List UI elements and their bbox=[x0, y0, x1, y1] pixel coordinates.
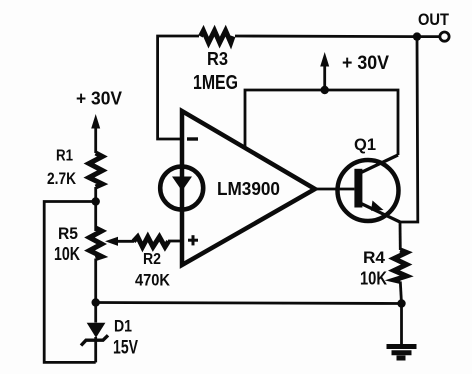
svg-text:R1: R1 bbox=[56, 148, 73, 165]
svg-text:+ 30V: + 30V bbox=[342, 53, 389, 74]
wire R4 to ground node bbox=[400, 282, 401, 304]
wire R5 to node B bbox=[94, 259, 97, 303]
plus input sign bbox=[188, 235, 198, 245]
wire R2 to plus input bbox=[168, 240, 182, 243]
resistor R1 bbox=[89, 153, 102, 187]
potentiometer R5 bbox=[90, 228, 102, 259]
wire R1 to node A bbox=[94, 187, 97, 202]
node +30V junction dot bbox=[321, 86, 329, 94]
wire OUT stub bbox=[417, 35, 439, 38]
svg-text:R2: R2 bbox=[143, 251, 161, 268]
wire emitter node to R4 bbox=[399, 222, 402, 250]
wire top rail from R3 loop corner to OUT node bbox=[158, 36, 417, 139]
wire OUT vertical down to emitter node bbox=[400, 37, 418, 222]
svg-text:D1: D1 bbox=[114, 317, 132, 336]
node A junction dot bbox=[92, 197, 100, 205]
svg-text:470K: 470K bbox=[135, 271, 171, 290]
power +30V left: arrow bbox=[94, 124, 97, 153]
transistor Q1 base bar bbox=[354, 169, 362, 208]
wire node A to R5 bbox=[94, 202, 97, 232]
wire left loop from node A down around to D1 bottom bbox=[44, 202, 95, 363]
current source arrow bbox=[172, 177, 192, 192]
terminal OUT open circle bbox=[440, 32, 449, 41]
wire ground stem bbox=[400, 304, 403, 346]
svg-text:2.7K: 2.7K bbox=[47, 169, 77, 188]
ground bbox=[387, 347, 417, 359]
power +30V mid: arrow bbox=[323, 62, 326, 90]
potentiometer R5 wiper arrow bbox=[105, 237, 118, 246]
transistor Q1 circle bbox=[338, 160, 399, 221]
wire R5 wiper to R2 bbox=[114, 240, 134, 243]
diode D1 zener bbox=[87, 323, 106, 338]
svg-text:R3: R3 bbox=[207, 49, 228, 69]
svg-text:Q1: Q1 bbox=[354, 135, 376, 154]
resistor R2 bbox=[134, 237, 169, 247]
wire bottom rail node B to ground node bbox=[96, 303, 402, 304]
wire node B to D1 bbox=[94, 303, 97, 323]
op-amp U1 LM3900 triangle bbox=[182, 111, 315, 265]
node OUT junction bbox=[413, 32, 421, 40]
transistor Q1 collector bbox=[360, 155, 398, 173]
svg-text:15V: 15V bbox=[113, 338, 138, 359]
node B junction dot bbox=[92, 298, 100, 306]
svg-text:R4: R4 bbox=[363, 248, 386, 267]
node ground junction dot bbox=[397, 299, 405, 307]
svg-text:10K: 10K bbox=[54, 244, 80, 264]
transistor Q1 emitter arrowhead bbox=[371, 201, 384, 211]
svg-text:LM3900: LM3900 bbox=[217, 179, 280, 199]
resistor R3 bbox=[201, 31, 234, 43]
minus input sign bbox=[187, 137, 198, 140]
svg-text:+ 30V: + 30V bbox=[76, 89, 122, 109]
wire +30V rail to op-amp V+ and Q1 collector bbox=[245, 90, 398, 155]
wire op-amp output to Q1 base bbox=[315, 188, 354, 191]
current source symbol inside op-amp bbox=[160, 167, 203, 210]
resistor R4 bbox=[394, 250, 407, 282]
wire D1 to bottom loop bbox=[94, 337, 97, 362]
svg-text:10K: 10K bbox=[360, 269, 387, 289]
svg-text:R5: R5 bbox=[58, 224, 78, 243]
svg-text:OUT: OUT bbox=[418, 10, 450, 29]
svg-text:1MEG: 1MEG bbox=[193, 72, 238, 94]
transistor Q1 emitter bbox=[360, 203, 400, 222]
